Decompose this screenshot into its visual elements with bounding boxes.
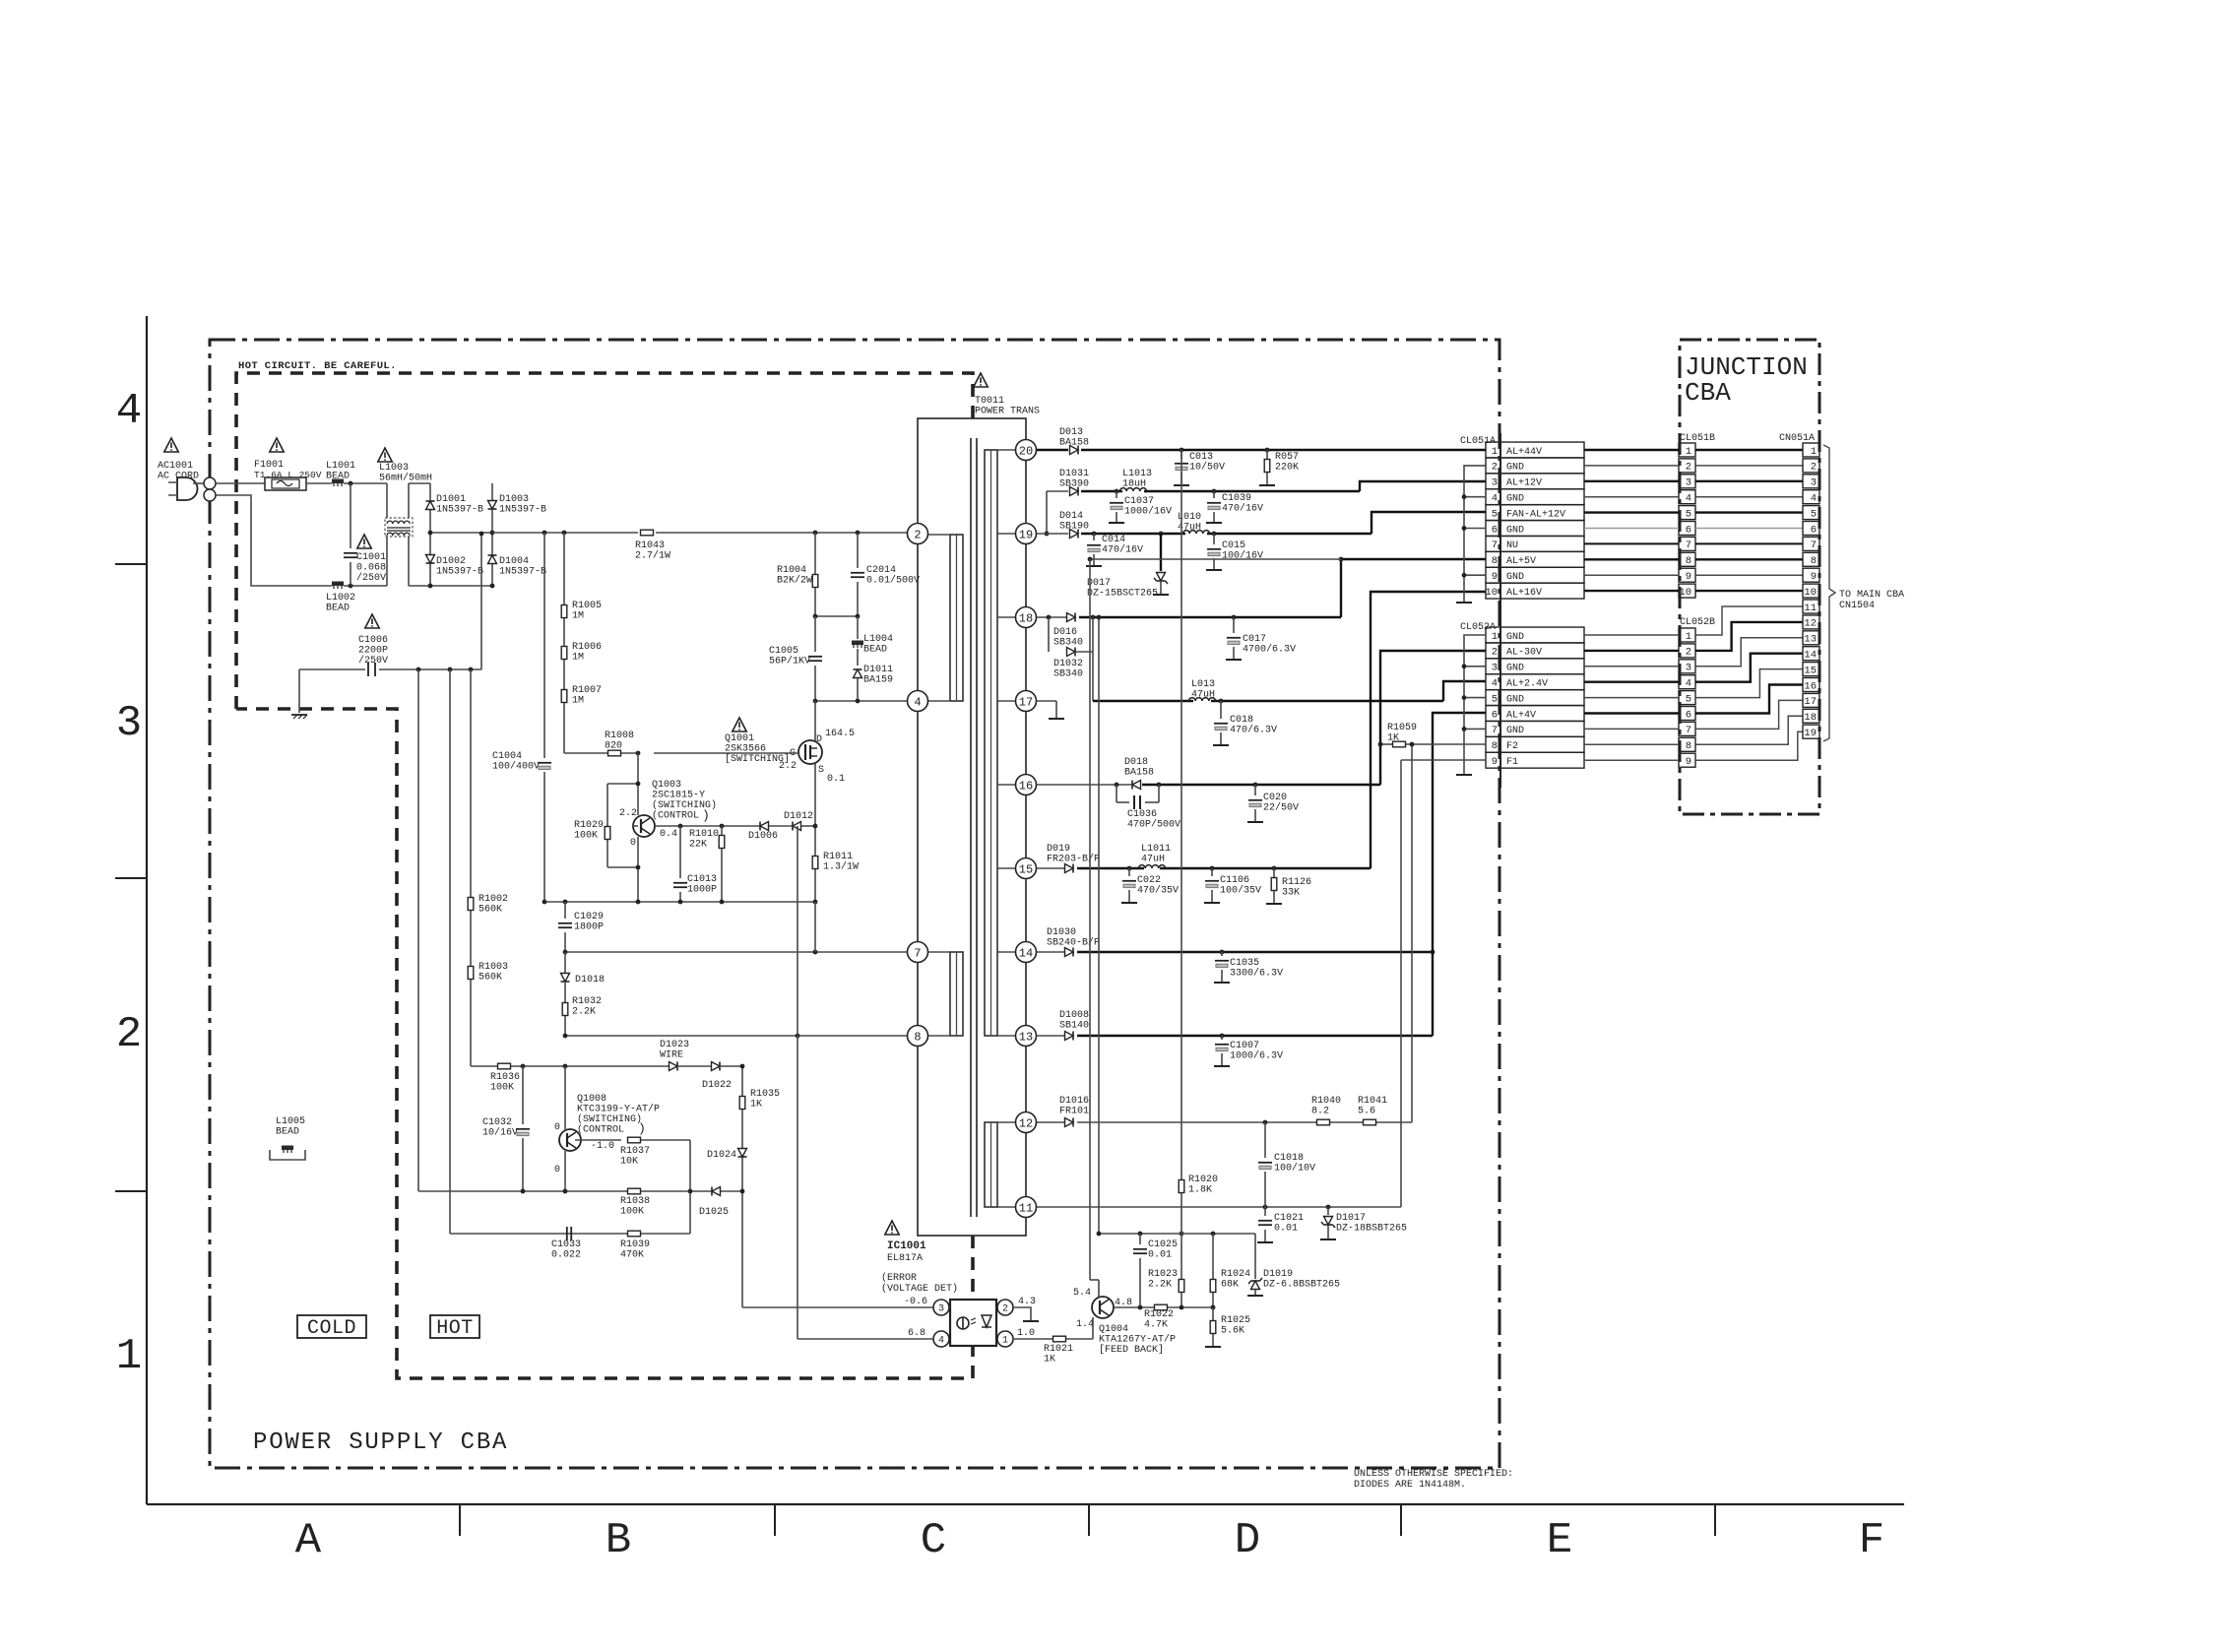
svg-text:2200P: 2200P (358, 646, 388, 657)
wire D-bus vertical (741, 1066, 743, 1307)
svg-text:SB340: SB340 (1053, 638, 1083, 649)
svg-text:13: 13 (1019, 1030, 1033, 1044)
svg-text:5: 5 (1686, 693, 1691, 705)
svg-text:FR203-B/P: FR203-B/P (1047, 854, 1100, 865)
svg-text:1K: 1K (1044, 1355, 1055, 1366)
wire bridge right leg (491, 483, 493, 500)
wire CL052B-5 to CN051A-15 (1695, 669, 1803, 698)
wire CL052B-8 to CN051A-18 (1695, 716, 1803, 744)
svg-text:D: D (816, 734, 822, 745)
wire right leg Q1008 box (689, 1140, 691, 1234)
svg-text:4.7K: 4.7K (1144, 1320, 1168, 1331)
svg-text:C1007: C1007 (1230, 1041, 1259, 1051)
diode D1025 (712, 1187, 721, 1196)
capacitor C1005 (814, 616, 816, 652)
svg-text:5.6K: 5.6K (1221, 1326, 1244, 1337)
svg-text:1.3/1W: 1.3/1W (823, 861, 859, 873)
svg-text:9: 9 (1492, 756, 1498, 768)
svg-text:GND: GND (1506, 572, 1524, 583)
CN051A bracket (1823, 445, 1835, 741)
wire pin14 rail AL+2.4V (1037, 951, 1064, 953)
svg-text:1.8K: 1.8K (1188, 1185, 1212, 1196)
wire R1002 chain (470, 669, 472, 1066)
svg-text:GND: GND (1506, 525, 1524, 536)
wire C1033 rail (450, 1233, 690, 1235)
wire CL052A-9 to CL052B (1584, 759, 1679, 761)
svg-text:13: 13 (1804, 634, 1817, 646)
frame row tick 2/3 (115, 877, 147, 879)
bead L1004 (857, 616, 859, 639)
svg-text:): ) (702, 808, 710, 823)
transformer pin 4 (908, 691, 928, 712)
resistor R1003 (468, 967, 474, 980)
transistor Q1008 (564, 1066, 566, 1129)
svg-text:9: 9 (1811, 571, 1817, 583)
svg-text:D1008: D1008 (1059, 1010, 1089, 1021)
svg-text:R1040: R1040 (1311, 1096, 1341, 1107)
svg-text:C2014: C2014 (866, 565, 896, 576)
svg-text:9: 9 (1492, 571, 1498, 583)
svg-text:470K: 470K (620, 1250, 644, 1261)
wire CL052A-1 to CL052B (1584, 634, 1679, 636)
svg-text:CBA: CBA (1685, 378, 1731, 408)
wire 12V rail AL+12V (1047, 490, 1068, 492)
svg-text:1: 1 (1492, 446, 1498, 458)
frame col tick C/D (1088, 1504, 1090, 1536)
svg-text:R1041: R1041 (1358, 1096, 1387, 1107)
wire bead to choke (344, 482, 387, 484)
svg-text:1000/16V: 1000/16V (1124, 506, 1172, 518)
svg-text:0.01: 0.01 (1274, 1224, 1298, 1235)
capacitor C1025 (1139, 1234, 1141, 1244)
resistor R1038 (628, 1188, 641, 1194)
svg-text:UNLESS OTHERWISE SPECIFIED:: UNLESS OTHERWISE SPECIFIED: (1354, 1469, 1513, 1480)
wire opto pin2 to ground (1013, 1307, 1031, 1320)
wire F2 riser (1411, 744, 1413, 1122)
MOSFET Q1001 switching (798, 740, 822, 764)
svg-text:2: 2 (1686, 462, 1691, 474)
frame col tick A/B (459, 1504, 461, 1536)
svg-text:47uH: 47uH (1141, 855, 1165, 865)
svg-text:Q1004: Q1004 (1099, 1324, 1128, 1335)
svg-text:(VOLTAGE DET): (VOLTAGE DET) (881, 1283, 958, 1295)
wire fuse to bead (306, 482, 332, 484)
svg-text:14: 14 (1804, 650, 1817, 662)
wire Q1001 drain (814, 701, 816, 741)
wire pin11 rail F1 (1037, 1206, 1401, 1208)
transistor Q1003 (637, 753, 639, 815)
svg-text:SB340: SB340 (1053, 669, 1083, 680)
svg-text:56P/1KV: 56P/1KV (769, 656, 810, 667)
svg-text:WIRE: WIRE (660, 1050, 683, 1061)
transformer pin 7 (908, 942, 928, 963)
svg-text:C013: C013 (1189, 452, 1213, 463)
svg-text:C1021: C1021 (1274, 1213, 1304, 1224)
connector CL052B box (1679, 675, 1695, 689)
connector CL052B box (1679, 753, 1695, 767)
resistor R057 (1266, 450, 1268, 459)
svg-text:D1022: D1022 (702, 1080, 732, 1091)
svg-text:R1025: R1025 (1221, 1315, 1250, 1326)
svg-text:Q1001: Q1001 (725, 733, 754, 744)
svg-text:10: 10 (1804, 587, 1817, 599)
svg-text:2: 2 (914, 528, 921, 541)
svg-text:D1017: D1017 (1336, 1213, 1366, 1224)
svg-text:0: 0 (554, 1165, 560, 1175)
svg-text:2: 2 (1686, 647, 1691, 659)
inductor L1011 (1138, 865, 1165, 868)
svg-text:2.2: 2.2 (619, 808, 637, 819)
wire CL052B-9 to CN051A-19 (1695, 731, 1803, 760)
svg-text:10K: 10K (620, 1157, 638, 1168)
capacitor C1033 (566, 1227, 568, 1240)
wire CL052B-1 to CN051A-11 (1695, 606, 1803, 635)
svg-text:BA159: BA159 (863, 675, 893, 686)
node R1005 tap (562, 531, 567, 536)
wire pin13 rail AL+4V (1037, 1035, 1064, 1037)
wire CL052B-6 to CN051A-16 (1695, 685, 1803, 714)
wire pin16 rail AL-30V (1037, 784, 1131, 786)
wire choke vertical taps (386, 483, 388, 518)
svg-text:R1010: R1010 (689, 829, 719, 840)
wire CL051A-1 to CL051B (1584, 449, 1679, 451)
wire CL051A-10 to CL051B (1584, 590, 1679, 592)
svg-text:D013: D013 (1059, 427, 1083, 438)
wire source rail to pin7 (814, 902, 816, 952)
svg-text:R1029: R1029 (574, 820, 604, 831)
svg-text:L1003: L1003 (379, 463, 409, 474)
svg-text:C1006: C1006 (358, 635, 388, 646)
power supply CBA boundary box (210, 340, 1499, 1468)
wire D1031 branch riser (1046, 491, 1048, 534)
svg-text:100/10V: 100/10V (1274, 1163, 1315, 1175)
svg-text:0.068: 0.068 (356, 563, 386, 574)
svg-text:10/16V: 10/16V (482, 1127, 518, 1139)
chassis ground for C1006 (298, 669, 300, 713)
svg-text:1.0: 1.0 (1017, 1328, 1035, 1339)
svg-text:/250V: /250V (356, 572, 386, 584)
diode D1022 (678, 1065, 711, 1067)
svg-text:4: 4 (1686, 493, 1691, 505)
wire bead L1002 to choke (344, 585, 387, 587)
wire Q1004 emitter (1098, 1280, 1100, 1297)
transformer primary winding upper (950, 535, 963, 701)
svg-text:R057: R057 (1275, 452, 1299, 463)
svg-text:56mH/50mH: 56mH/50mH (379, 473, 432, 484)
svg-text:(SWITCHING): (SWITCHING) (577, 1113, 642, 1125)
resistor R1011 (812, 857, 818, 869)
svg-text:R1011: R1011 (823, 852, 853, 862)
svg-text:8: 8 (1811, 555, 1817, 567)
wire CL051B-10 to CN051A (1695, 590, 1803, 592)
resistor R1002 (468, 898, 474, 911)
capacitor C015 (1213, 534, 1215, 544)
svg-text:BEAD: BEAD (863, 645, 887, 656)
svg-text:SB140: SB140 (1059, 1021, 1089, 1032)
svg-text:560K: 560K (478, 905, 502, 916)
resistor R1004 branch (814, 533, 816, 574)
wire CL052A-6 to CL052B (1584, 712, 1679, 714)
frame row tick 1/2 (115, 1190, 147, 1192)
svg-text:AL+2.4V: AL+2.4V (1506, 679, 1548, 690)
transformer pin 18 (1016, 607, 1037, 628)
resistor R1020 (1180, 450, 1182, 1179)
svg-text:Q1008: Q1008 (577, 1094, 606, 1105)
zener D1017 (1327, 1207, 1329, 1215)
fuse F1001 (265, 477, 306, 490)
wire +5V to connector (1341, 559, 1486, 617)
svg-text:Q1003: Q1003 (652, 780, 681, 791)
wire left loop A (417, 669, 419, 1191)
resistor R1008 (608, 750, 621, 756)
svg-text:AL+44V: AL+44V (1506, 447, 1542, 458)
resistor R1043 (641, 530, 654, 536)
capacitor C013 (1180, 450, 1182, 459)
svg-text:R1004: R1004 (777, 565, 806, 576)
wire CL051B-9 to CN051A (1695, 574, 1803, 576)
svg-text:3: 3 (116, 699, 142, 748)
svg-text:C015: C015 (1222, 540, 1245, 551)
svg-text:14: 14 (1019, 946, 1033, 960)
capacitor C014 (1093, 534, 1095, 540)
svg-text:100K: 100K (490, 1083, 514, 1094)
transformer pin 13 (1016, 1026, 1037, 1047)
svg-text:2: 2 (1492, 462, 1498, 474)
frame row tick 3/4 (115, 563, 147, 565)
svg-text:C017: C017 (1243, 634, 1266, 645)
svg-text:R1006: R1006 (572, 642, 602, 653)
wire base bottom rail (418, 1190, 742, 1192)
svg-text:18: 18 (1804, 712, 1817, 724)
wire pin7 line (565, 951, 907, 953)
ferrite bead L1001 (332, 479, 344, 484)
svg-text:A: A (295, 1516, 322, 1565)
svg-text:1N5397-B: 1N5397-B (499, 567, 546, 578)
wire choke bottom right to bridge (409, 585, 430, 587)
junction CBA boundary box (1680, 340, 1819, 814)
connector CL052B box (1679, 660, 1695, 673)
svg-text:7: 7 (1492, 540, 1498, 551)
frame border left line (146, 316, 148, 1504)
svg-text:L1013: L1013 (1122, 469, 1152, 479)
svg-text:5: 5 (1492, 508, 1498, 520)
svg-text:D1025: D1025 (699, 1207, 729, 1218)
transformer secondary winding upper (985, 450, 997, 1036)
svg-text:AC CORD: AC CORD (158, 472, 199, 482)
svg-text:F1: F1 (1506, 757, 1518, 768)
svg-text:4: 4 (1811, 493, 1817, 505)
svg-text:7: 7 (914, 946, 921, 960)
svg-text:D1012: D1012 (784, 811, 813, 822)
svg-text:C1035: C1035 (1230, 958, 1259, 969)
wire CL051B-7 to CN051A (1695, 542, 1803, 544)
svg-text:47uH: 47uH (1191, 690, 1215, 701)
transformer label T0011 (974, 373, 988, 387)
resistor R1007 (561, 690, 567, 703)
connector CL052B box (1679, 628, 1695, 642)
svg-text:BA158: BA158 (1124, 768, 1154, 779)
transformer primary winding lower (950, 952, 963, 1036)
svg-text:2: 2 (1492, 647, 1498, 659)
wire Q1001 source (814, 764, 816, 856)
svg-text:1M: 1M (572, 611, 584, 622)
svg-text:GND: GND (1506, 726, 1524, 736)
wire CL051A-2 to CL051B (1584, 465, 1679, 467)
capacitor C1013 (679, 826, 681, 878)
svg-text:470/35V: 470/35V (1137, 885, 1179, 897)
wire CL051A-5 to CL051B (1584, 511, 1679, 513)
svg-text:L1002: L1002 (326, 593, 355, 604)
capacitor C022 (1128, 868, 1130, 876)
svg-text:5.6: 5.6 (1358, 1107, 1375, 1117)
svg-text:GND: GND (1506, 664, 1524, 674)
svg-text:4: 4 (1492, 493, 1498, 505)
capacitor C1036 bypass (1116, 785, 1117, 802)
svg-text:470/6.3V: 470/6.3V (1230, 725, 1277, 736)
svg-text:C1001: C1001 (356, 552, 386, 563)
svg-text:HOT CIRCUIT. BE CAREFUL.: HOT CIRCUIT. BE CAREFUL. (238, 360, 397, 372)
zener D017 (1160, 534, 1162, 571)
resistor R1006 (561, 647, 567, 660)
resistor R1023 (1180, 1234, 1182, 1279)
svg-text:2.2: 2.2 (779, 761, 797, 772)
svg-text:3: 3 (1492, 663, 1498, 674)
svg-text:8: 8 (914, 1030, 921, 1044)
svg-text:[FEED BACK]: [FEED BACK] (1099, 1344, 1164, 1356)
svg-text:2.7/1W: 2.7/1W (635, 550, 670, 562)
svg-text:4700/6.3V: 4700/6.3V (1243, 644, 1296, 656)
resistor R1024 (1212, 1234, 1214, 1279)
transformer pin 19 (1016, 524, 1037, 544)
svg-text:GND: GND (1506, 694, 1524, 705)
svg-text:R1008: R1008 (605, 731, 634, 741)
svg-text:0.1: 0.1 (827, 774, 845, 785)
svg-text:C1032: C1032 (482, 1117, 512, 1128)
wire CL051A-7 to CL051B (1584, 542, 1679, 544)
svg-text:220K: 220K (1275, 463, 1299, 474)
capacitor C1001 (350, 483, 351, 548)
transformer pin 14 (1016, 942, 1037, 963)
svg-text:D1016: D1016 (1059, 1096, 1089, 1107)
svg-text:CN1504: CN1504 (1839, 601, 1875, 611)
label L1003 common mode choke (378, 448, 392, 462)
svg-text:22K: 22K (689, 840, 707, 851)
svg-text:/250V: /250V (358, 655, 388, 667)
svg-text:100K: 100K (574, 831, 598, 842)
optocoupler pin 4 (933, 1331, 949, 1347)
svg-text:4: 4 (914, 695, 921, 709)
svg-text:AL+16V: AL+16V (1506, 588, 1542, 599)
resistor R1021 (1053, 1336, 1066, 1342)
svg-text:D018: D018 (1124, 757, 1148, 768)
svg-text:2: 2 (1002, 1304, 1008, 1315)
wire Q1004 base wire (1114, 1306, 1154, 1308)
svg-text:T0011: T0011 (975, 396, 1004, 407)
transformer pin 12 (1016, 1112, 1037, 1133)
svg-text:KTA1267Y-AT/P: KTA1267Y-AT/P (1099, 1334, 1176, 1346)
capacitor C020 (1254, 785, 1256, 795)
svg-text:SB240-B/P: SB240-B/P (1047, 937, 1100, 949)
svg-text:8: 8 (1492, 555, 1498, 567)
svg-text:2SC1815-Y: 2SC1815-Y (652, 791, 705, 801)
diode D018 (1132, 781, 1141, 790)
svg-text:C1037: C1037 (1124, 496, 1154, 507)
svg-text:5: 5 (1811, 508, 1817, 520)
svg-text:1N5397-B: 1N5397-B (499, 505, 546, 516)
svg-text:0.022: 0.022 (551, 1250, 581, 1261)
svg-text:12: 12 (1804, 618, 1817, 630)
wire pin17 stub (1037, 700, 1056, 702)
svg-text:1K: 1K (1387, 733, 1399, 744)
svg-text:R1024: R1024 (1221, 1269, 1250, 1280)
svg-text:16: 16 (1804, 680, 1817, 692)
svg-text:22/50V: 22/50V (1263, 802, 1299, 814)
wire CL051B-3 to CN051A (1695, 480, 1803, 482)
wire bridge left leg (429, 483, 431, 586)
svg-text:(CONTROL: (CONTROL (577, 1124, 624, 1136)
svg-text:0: 0 (630, 838, 636, 849)
wire CL051A-3 to CL051B (1584, 480, 1679, 482)
svg-text:8: 8 (1686, 740, 1691, 752)
diode D1032 branch (1048, 617, 1050, 652)
svg-text:3300/6.3V: 3300/6.3V (1230, 968, 1283, 980)
svg-text:820: 820 (605, 741, 622, 752)
svg-text:6.8: 6.8 (908, 1328, 925, 1339)
svg-text:7: 7 (1686, 540, 1691, 551)
svg-text:L1001: L1001 (326, 461, 355, 472)
frame col tick E/F (1714, 1504, 1716, 1536)
hot area dashed boundary (236, 373, 973, 709)
CBA edge line through connectors (1499, 433, 1501, 788)
svg-text:10: 10 (1485, 587, 1498, 599)
svg-text:19: 19 (1019, 528, 1033, 541)
wire gate line (564, 752, 640, 754)
wire pin12 rail F2 (1037, 1121, 1064, 1123)
label COLD box (297, 1315, 366, 1338)
capacitor C1039 (1213, 491, 1215, 498)
capacitor C017 (1233, 617, 1235, 633)
diode D1023 (670, 1062, 678, 1071)
wire bridge output node (430, 532, 492, 534)
svg-text:4: 4 (1492, 678, 1498, 690)
CL051A ground bus (1464, 466, 1486, 602)
wire Q1003 base line (633, 825, 638, 827)
wire CL051A-9 to CL051B (1584, 574, 1679, 576)
transformer core lines (970, 438, 972, 1217)
svg-text:100/400V: 100/400V (492, 761, 540, 773)
wire CL051A-6 to CL051B (1584, 528, 1679, 530)
inductor L010 (1182, 531, 1209, 534)
svg-text:R1021: R1021 (1044, 1344, 1073, 1355)
frame col tick B/C (774, 1504, 776, 1536)
diode D1001 (426, 501, 435, 510)
wire CL052A-3 to CL052B (1584, 666, 1679, 667)
connector CL052B box (1679, 722, 1695, 735)
svg-text:D1032: D1032 (1053, 659, 1083, 669)
resistor R1036 (498, 1063, 511, 1069)
svg-text:3: 3 (1492, 477, 1498, 489)
svg-text:164.5: 164.5 (825, 729, 855, 739)
svg-text:11: 11 (1019, 1201, 1033, 1215)
svg-text:AL-30V: AL-30V (1506, 648, 1542, 659)
wire error amp top rail (1099, 1233, 1255, 1235)
svg-text:2.2K: 2.2K (1148, 1280, 1172, 1291)
svg-text:C1005: C1005 (769, 646, 798, 657)
svg-text:17: 17 (1019, 695, 1033, 709)
svg-text:6: 6 (1492, 524, 1498, 536)
connector CL051A table (1486, 442, 1500, 458)
diode D1018 (564, 952, 566, 973)
